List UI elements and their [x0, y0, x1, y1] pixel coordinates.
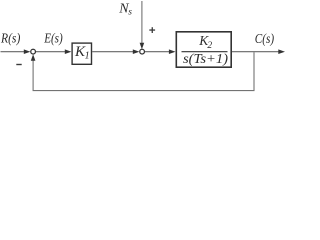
svg-text:2: 2	[207, 41, 212, 51]
svg-text:E(s): E(s)	[43, 31, 63, 46]
svg-text:1: 1	[85, 51, 90, 62]
svg-text:R(s): R(s)	[0, 31, 20, 46]
svg-text:C(s): C(s)	[255, 32, 275, 47]
svg-text:s: s	[128, 8, 132, 18]
svg-text:s(Ts+1): s(Ts+1)	[183, 52, 228, 67]
